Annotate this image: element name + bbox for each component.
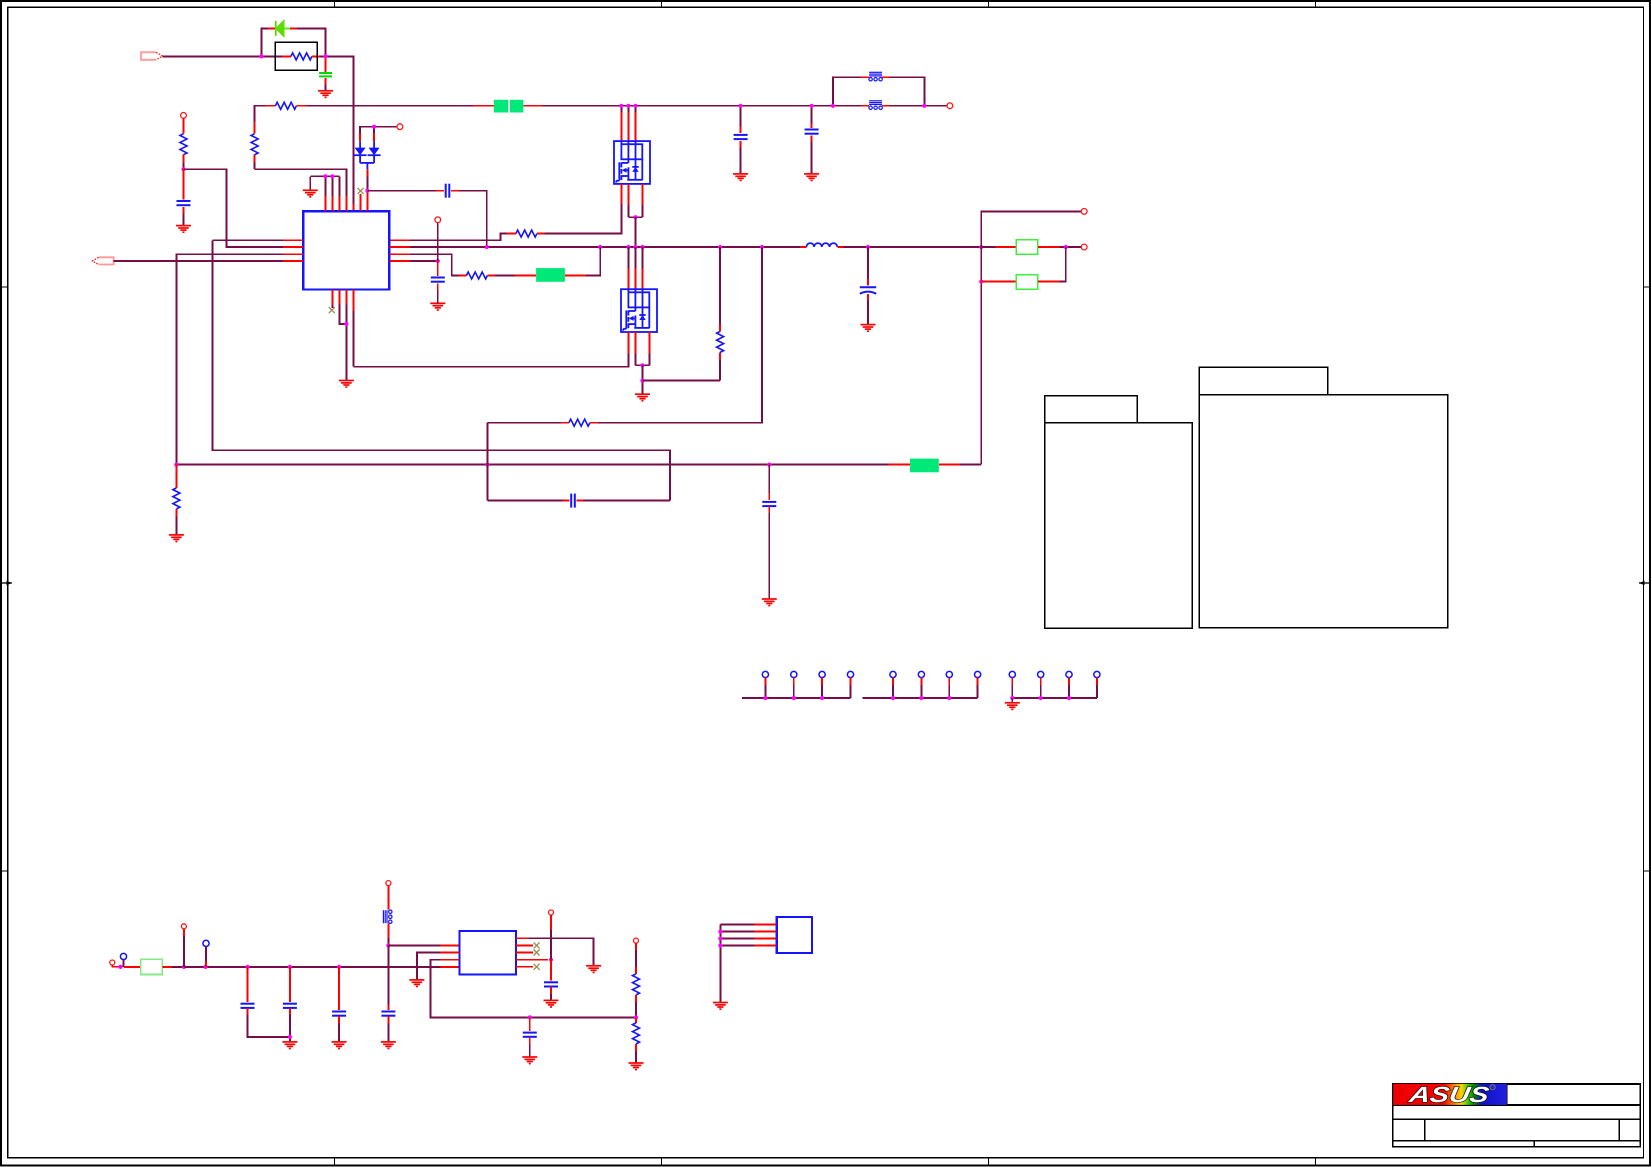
open connector sense (1081, 209, 1087, 215)
pin green capacitor C1 top (325, 56, 327, 71)
resistor R2 (275, 102, 296, 109)
pin header J3 bus wire (742, 697, 851, 699)
ground below C3 (804, 174, 819, 181)
ground below C2 (733, 174, 748, 181)
junction J5 pin 3 (1067, 696, 1071, 700)
wire Q2 source U-join (634, 353, 636, 365)
wire Q1 gate to R3 (545, 204, 622, 234)
resistor R6 (466, 272, 487, 279)
wire bus SW to Q2 drain pins (627, 247, 629, 269)
junction diode rail (372, 125, 376, 129)
pin capacitor C13 bottom (387, 1016, 389, 1024)
pin capacitor C4 right (451, 190, 459, 192)
junction Q2 source (640, 363, 644, 367)
ground below C9 (762, 599, 777, 606)
fuse F3 (green) (536, 268, 565, 282)
pin fuse F5 left (124, 966, 141, 968)
wire bottom3 to ground (345, 304, 347, 380)
pin resistor R12 bottom (635, 1044, 637, 1052)
pin U1 right row3 (389, 253, 410, 255)
junction U3 row4 (718, 944, 722, 948)
pin header J3 pin 4 (847, 671, 853, 677)
pin U2 right row4 no-connect (516, 966, 533, 968)
capacitor C1 (green) (319, 73, 332, 76)
capacitor C15 (544, 982, 558, 986)
junction input node A (259, 54, 263, 58)
pin resistor R3 right (537, 233, 545, 235)
junction Q1 drain 3 (633, 104, 637, 108)
junction FB1 at R5 leg (174, 463, 178, 467)
pin resistor R6 left (459, 275, 467, 277)
wire R4 bottom (254, 162, 256, 169)
wire bottom bus (184, 966, 441, 968)
wire C2 to ground (740, 148, 742, 174)
junction SW q2 pin2 (633, 245, 637, 249)
ferrite bead FB2 (869, 72, 882, 76)
wire U1 row3 corner (176, 254, 283, 464)
wire C10 to join (248, 1015, 290, 1037)
pin U1 bottom 4 (352, 290, 354, 311)
pin header J5 pin 1 (1009, 671, 1015, 677)
pin capacitor C7 top (867, 279, 869, 286)
wire bus VIN middle (306, 105, 473, 107)
pin U2 left row2 (441, 952, 460, 954)
wire C14 to ground (529, 1045, 531, 1058)
pin U3 row4 (755, 945, 777, 947)
wire C11 to ground (289, 1015, 291, 1042)
junction lower jumper branch (979, 280, 983, 284)
wire U1 pin4 to R4 rail (255, 169, 347, 196)
junction SW q2 pin3 (640, 245, 644, 249)
junction J4 pin 1 (891, 696, 895, 700)
resistor R12 (633, 1023, 640, 1044)
wire R1 to junction (320, 55, 326, 57)
pin supply stub (387, 886, 389, 910)
pin cap C2 bottom (740, 141, 742, 148)
wire row3 conn to junction (550, 930, 552, 960)
ASUS registered mark (1490, 1085, 1495, 1090)
pin resistor R11 bottom (635, 995, 637, 1003)
ground below C7 (861, 325, 876, 332)
junction C14 branch (528, 1015, 532, 1019)
capacitor C8 (571, 494, 575, 508)
pin resistor R2 right (296, 105, 306, 107)
pin resistor R12 top (635, 1017, 637, 1023)
pin capacitor C10 bottom (247, 1008, 249, 1015)
ferrite bead FB1 (869, 101, 882, 105)
jumper J1 (green outline) (1016, 240, 1038, 255)
wire P2 to U1 row4 (114, 260, 284, 262)
pin U1 bottom 1 no-connect (331, 290, 333, 306)
fuse F2a (green) (494, 100, 508, 113)
pin bead FB2 right (882, 76, 890, 78)
pin capacitor C15 bottom (550, 987, 552, 995)
pin U2 right row2 no-connect (516, 952, 533, 954)
pin capacitor C15 top (550, 960, 552, 981)
capacitor C2 (734, 135, 748, 139)
wire cap branch C3 (811, 106, 813, 124)
wire U3 row2 (720, 931, 754, 933)
pin fuse F4 right (939, 464, 960, 466)
ground below C15 (544, 1000, 559, 1007)
resistor R1 in fuse box (291, 53, 312, 60)
ground below C1 (318, 91, 333, 98)
ground below C11 (282, 1042, 297, 1049)
wire C15 to ground (550, 994, 552, 1000)
dual diode D2 package (354, 142, 381, 170)
wire row2 to ground (417, 953, 441, 980)
ground below Q2 (635, 394, 650, 401)
pin capacitor C8 right (577, 500, 583, 502)
wire compensation bottom rail right (583, 500, 670, 502)
pin header J5 pin 4 (1094, 671, 1100, 677)
pins Q1 drain (620, 112, 622, 141)
pin bead FB1 right (882, 105, 890, 107)
pin resistor R10 top (175, 465, 177, 488)
wire bead loop right (890, 77, 925, 106)
pin U2 left row3 (441, 959, 460, 961)
wire L1 to output node (843, 246, 981, 248)
pin jumper J2 left (981, 281, 1016, 283)
ground U1 top (303, 190, 318, 197)
pin capacitor C9 top (768, 493, 770, 500)
ground below row2 (409, 980, 424, 987)
wire R11 to junction (635, 1002, 637, 1017)
junction top pin2 (330, 174, 334, 178)
capacitor C6 (431, 278, 445, 282)
capacitor C12 (332, 1012, 346, 1016)
pin resistor R3 left (506, 233, 516, 235)
capacitor C5 (177, 201, 191, 205)
wire C13 to ground (387, 1024, 389, 1042)
pin row3 conn stub (550, 915, 552, 930)
fuse F2b (green) (510, 100, 523, 113)
junction output node (979, 245, 983, 249)
pin header J3 pin 3 (819, 671, 825, 677)
junction row4 node (436, 259, 440, 263)
no-connect X U2 row1 (534, 942, 540, 948)
junction C10 branch (245, 965, 249, 969)
wire FB3 to junction (387, 938, 389, 945)
resistor R9 (717, 331, 724, 352)
wire input to LED branch (163, 55, 262, 57)
wire C7 to ground (867, 300, 869, 324)
junction J5 pin 2 (1039, 696, 1043, 700)
wire row4 to test connector (410, 260, 438, 262)
resistor R5 with connector (left) (181, 113, 187, 119)
no-connect X U1 bottom (329, 307, 335, 313)
wire compensation bottom rail left (487, 500, 563, 502)
wire supply down (387, 945, 389, 1009)
wire Q1 source to bus SW (635, 217, 637, 247)
capacitor C11 (283, 1004, 297, 1008)
wire R12 to ground (635, 1051, 637, 1063)
open connector row4 (435, 217, 441, 223)
border zone tick bottom 4 (1315, 1158, 1317, 1166)
pin divider top stub (635, 943, 637, 950)
wire Q2 gate to U1 bottom pin (353, 353, 628, 366)
wire connector to bus (183, 936, 185, 967)
ground below C5 (176, 226, 191, 233)
pin cap C2 top (740, 127, 742, 134)
open connector VIN right (947, 103, 953, 109)
pin cap C3 bottom (811, 136, 813, 142)
capacitor C14 (523, 1033, 537, 1037)
pins Q1 source legs (627, 184, 629, 205)
junction Q1 drain 1 (619, 104, 623, 108)
wire Q1 source U-join (627, 205, 629, 217)
junction C2 branch (739, 104, 743, 108)
wire U3 row1 (720, 924, 754, 926)
wire F5 to bus (172, 966, 184, 968)
wire J2 up to J1 node (1060, 247, 1066, 282)
junction SW at R7 chain (598, 245, 602, 249)
pin bottom bus to U2 (441, 966, 460, 968)
connector body CN2 tab (1199, 367, 1328, 395)
wire feedback rail FB1 (176, 464, 888, 466)
connector U3 4-pin (777, 917, 812, 953)
border zone mid-mark right arrow (1639, 581, 1650, 585)
wire test connector drop (437, 223, 439, 261)
wire F4 to output vertical (960, 464, 981, 466)
connector body CN1 (1045, 423, 1192, 629)
wire C1 to ground (325, 85, 327, 91)
pin fuse F2 right (523, 105, 542, 107)
junction C11 branch (288, 965, 292, 969)
open connector supply top (386, 881, 391, 886)
no-connect X U2 row4 (534, 964, 540, 970)
border zone tick right upper (1643, 286, 1650, 288)
capacitor C3 (805, 130, 819, 134)
border zone tick left upper (1, 286, 8, 288)
pin header J5 pin 3 (1066, 671, 1072, 677)
pin capacitor C7 bottom (867, 294, 869, 301)
input port connector P1 (141, 52, 163, 60)
wire row3 to R6 (410, 254, 459, 275)
wire LED loop right (297, 29, 326, 57)
border zone tick bottom 1 (334, 1158, 336, 1166)
junction SW q2 pin1 (626, 245, 630, 249)
junction output cap branch (866, 245, 870, 249)
pin header J3 pin 1 (762, 671, 768, 677)
wire R10 to ground (175, 517, 177, 535)
pin U1 top 4 (345, 196, 347, 211)
inductor L1 (806, 243, 837, 247)
wire J5 ground stub (1011, 698, 1013, 703)
pin fuse F5 right (162, 966, 172, 968)
wire bottom4 corner (352, 311, 354, 367)
ground below R12 (629, 1063, 644, 1070)
pin resistor R11 top (635, 967, 637, 974)
pin fuse F2 left (473, 105, 494, 107)
pin diode D2 right top (373, 133, 375, 142)
pin resistor R2 left (266, 105, 276, 107)
wire C6 to ground (437, 290, 439, 303)
resistor R11 (633, 974, 640, 995)
wire R9 to bus SW (719, 247, 721, 325)
fuse F4 (green) (910, 459, 939, 473)
pin U1 left row3 (283, 253, 303, 255)
junction bottom input (118, 965, 122, 969)
border zone tick top 3 (988, 1, 990, 7)
junction node B (324, 54, 328, 58)
wire row3 long rail (431, 960, 636, 1018)
wire supply to U2 row1 (388, 944, 440, 946)
wire compensation vertical (486, 423, 488, 501)
test point TP2 (203, 940, 209, 946)
pin TP2 stub (205, 961, 207, 967)
junction C12 branch (337, 965, 341, 969)
ground below C14 (522, 1057, 537, 1064)
wire TP2 stub (205, 947, 207, 961)
capacitor C4 (446, 184, 450, 198)
wire R5 to junction (183, 162, 185, 169)
fuse box F1 outline (275, 42, 317, 70)
wire junction to fuse resistor (261, 55, 282, 57)
pin inductor L1 left (800, 246, 806, 248)
pin header J4 pin 1 (890, 671, 896, 677)
capacitor C13 (381, 1012, 395, 1016)
junction bottom bus conn (182, 965, 186, 969)
junction J3 pin 3 (820, 696, 824, 700)
pin capacitor C13 top (387, 1005, 389, 1010)
pin diode D2 left top (359, 133, 361, 142)
pin capacitor C9 bottom (768, 506, 770, 513)
border zone tick top 4 (1315, 1, 1317, 7)
open connector VOUT (1081, 244, 1087, 250)
wire C9 to ground (768, 513, 770, 599)
junction bead loop left (831, 104, 835, 108)
pin jumper J1 right (1038, 246, 1060, 248)
ground below C6 (430, 303, 445, 310)
pin U3 row2 (755, 931, 777, 933)
wire bus to Q1 drain pins (620, 106, 622, 112)
capacitor C10 (241, 1004, 255, 1008)
pin U1 top 5 (353, 204, 355, 211)
pin FB3 bottom (387, 924, 389, 938)
pin Q2 gate leg (627, 332, 629, 353)
junction supply node (386, 943, 390, 947)
IC U1 controller (303, 211, 389, 289)
pin U3 row3 (755, 938, 777, 940)
test point TP1 (120, 953, 126, 959)
pin capacitor C10 top (247, 967, 249, 1002)
junction Q2 source resistor tap (640, 379, 644, 383)
pin U2 right row0 (516, 937, 528, 939)
ASUS logo text (1406, 1082, 1491, 1107)
wire TP1 stub (123, 960, 125, 967)
wire compensation top rail (487, 422, 561, 424)
wire Q2 source to ground (642, 365, 644, 394)
junction FB1 at C9 branch (767, 463, 771, 467)
no-connect X U2 row2 (534, 950, 540, 956)
resistor R10 (173, 488, 180, 509)
pin resistor R1 left (282, 55, 291, 57)
wire R3 to U1 gate-drive pin (410, 234, 507, 241)
fuse F5 (green outline) (141, 959, 162, 974)
pin resistor R8 left (561, 422, 569, 424)
pin fuse F3 right (565, 275, 586, 277)
pin capacitor C8 left (563, 500, 569, 502)
wire bus VIN to MOSFET pins (543, 105, 861, 107)
wire junction right and down to U1 pin (326, 56, 354, 203)
ground below R10 (169, 535, 184, 542)
pin capacitor C5 top (183, 169, 185, 199)
resistor R3 (516, 230, 537, 237)
open connector row3 top (549, 910, 554, 915)
pin header J5 bus wire (1012, 697, 1097, 699)
pin capacitor C4 left (436, 190, 444, 192)
junction J4 pin 3 (947, 696, 951, 700)
ground below U3 (713, 1003, 728, 1010)
wire J1 to output connector (1060, 246, 1082, 248)
wire vertical feedback FB2 line (213, 240, 670, 500)
pin connector stub (183, 929, 185, 936)
ground below C12 (332, 1042, 347, 1049)
pin U1 right row1 (389, 239, 410, 241)
junction J3 pin 2 (792, 696, 796, 700)
pins U1 top 1-2 (324, 196, 326, 211)
pin U1 top 7 (366, 193, 368, 211)
wire bottom input stub (112, 965, 120, 967)
pin header J4 pin 3 (946, 671, 952, 677)
wire bus SW segment1 (410, 246, 800, 248)
junction C10-C11 join (288, 1035, 292, 1039)
border zone tick top 1 (334, 1, 336, 7)
pin U3 row1 (755, 924, 777, 926)
junction Q1 source (633, 215, 637, 219)
wire U1 row1 from vertical bus (213, 239, 284, 241)
capacitor C7 polarized (860, 287, 876, 294)
border zone tick bottom 3 (988, 1158, 990, 1166)
pin resistor R10 bottom (175, 509, 177, 517)
pin resistor R4 top (254, 122, 256, 134)
junction diode node (365, 189, 369, 193)
junction C3 branch (810, 104, 814, 108)
open connector divider top (634, 938, 639, 943)
junction FB1 at compensation (485, 463, 489, 467)
wire bus VIN right end (890, 105, 947, 107)
wire U1 top gnd rail (310, 175, 339, 177)
wire bead loop left (833, 77, 861, 106)
pin U1 bottom 2 (338, 290, 340, 305)
output port connector P2 (92, 257, 113, 264)
junction SW at C4 drop (485, 245, 489, 249)
ground J5 (1005, 703, 1020, 710)
pin diode D2 bottom (366, 169, 368, 176)
pin U1 left row2 (283, 246, 303, 248)
wire diode node (366, 176, 368, 193)
pin jumper J2 right (1038, 281, 1060, 283)
pin header J5 pin 2 (1038, 671, 1044, 677)
wire U3 common vertical (719, 925, 721, 1003)
pin resistor R1 right (312, 55, 320, 57)
pin U1 right row2 (389, 246, 410, 248)
junction Q1 drain 2 (626, 104, 630, 108)
pin U2 right row1 no-connect (516, 944, 533, 946)
pin fuse F3 left (515, 275, 536, 277)
pin header J4 pin 4 (975, 671, 981, 677)
pin U2 right row3 (516, 959, 548, 961)
pin U1 left row1 (283, 239, 303, 241)
pin bead FB1 left (861, 105, 869, 107)
wire C7 branch (867, 247, 869, 279)
border zone tick right lower (1643, 870, 1650, 872)
resistor R4 (251, 134, 258, 155)
wire output node down (980, 247, 982, 465)
border zone tick left lower (1, 870, 8, 872)
resistor R5 (180, 134, 187, 155)
